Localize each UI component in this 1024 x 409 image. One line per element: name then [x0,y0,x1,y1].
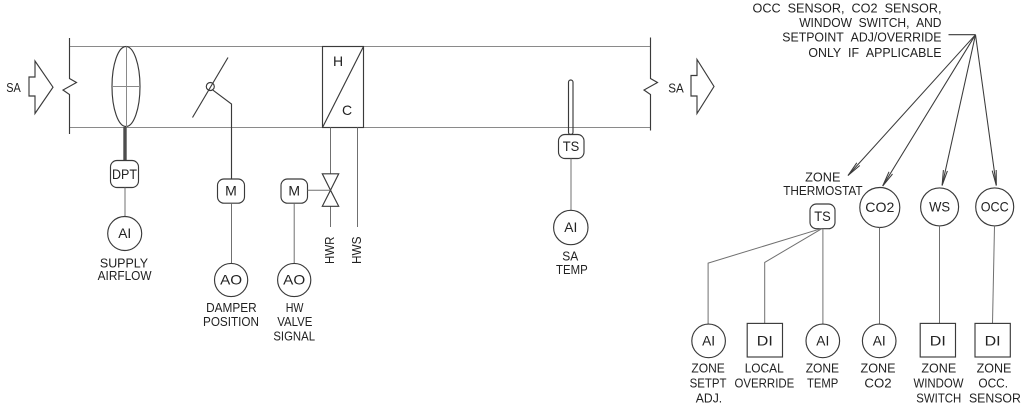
svg-text:HWR: HWR [322,237,337,265]
svg-text:AI: AI [702,332,715,348]
svg-text:M: M [225,183,237,199]
svg-text:SETPOINT ADJ/OVERRIDE: SETPOINT ADJ/OVERRIDE [782,30,942,45]
svg-text:TEMP: TEMP [556,262,588,277]
svg-text:ZONE: ZONE [691,361,725,376]
svg-text:CO2: CO2 [865,199,894,215]
svg-text:M: M [288,183,300,199]
svg-text:SA: SA [668,81,684,96]
svg-text:AO: AO [283,272,305,288]
svg-text:OVERRIDE: OVERRIDE [735,376,795,391]
svg-text:OCC.: OCC. [978,376,1008,391]
svg-text:ZONE: ZONE [977,361,1012,376]
svg-text:THERMOSTAT: THERMOSTAT [783,183,862,198]
svg-text:WINDOW SWITCH, AND: WINDOW SWITCH, AND [799,15,941,30]
svg-text:TEMP: TEMP [807,376,838,391]
svg-text:AO: AO [220,272,242,288]
svg-text:DI: DI [930,332,946,348]
svg-text:DI: DI [985,332,1001,348]
svg-text:HW: HW [286,300,304,315]
svg-text:TS: TS [563,138,580,154]
svg-text:CO2: CO2 [864,376,891,391]
svg-text:POSITION: POSITION [203,314,259,329]
svg-text:AIRFLOW: AIRFLOW [98,268,153,283]
svg-text:C: C [342,102,352,118]
svg-text:ZONE: ZONE [861,361,896,376]
svg-text:VALVE: VALVE [277,314,312,329]
svg-text:SWITCH: SWITCH [916,391,961,406]
svg-text:OCC: OCC [981,198,1009,214]
svg-text:ZONE: ZONE [806,361,840,376]
svg-text:DI: DI [757,332,773,348]
svg-text:WINDOW: WINDOW [913,376,964,391]
svg-text:SETPT: SETPT [690,376,727,391]
svg-text:AI: AI [118,225,131,241]
svg-text:AI: AI [564,219,577,235]
svg-text:DPT: DPT [112,166,137,182]
svg-text:ONLY IF APPLICABLE: ONLY IF APPLICABLE [808,45,941,60]
svg-text:AI: AI [816,332,829,348]
svg-text:LOCAL: LOCAL [745,361,784,376]
svg-text:OCC SENSOR, CO2 SENSOR,: OCC SENSOR, CO2 SENSOR, [753,0,942,15]
svg-text:DAMPER: DAMPER [206,300,257,315]
svg-text:WS: WS [929,198,950,214]
svg-text:H: H [333,53,343,69]
svg-text:SIGNAL: SIGNAL [273,329,315,344]
svg-text:ZONE: ZONE [921,361,956,376]
svg-text:SENSOR: SENSOR [969,391,1021,406]
svg-text:HWS: HWS [349,236,364,264]
svg-text:ADJ.: ADJ. [696,391,722,406]
svg-text:AI: AI [873,332,886,348]
svg-text:TS: TS [814,208,831,224]
svg-text:SA: SA [6,80,21,95]
